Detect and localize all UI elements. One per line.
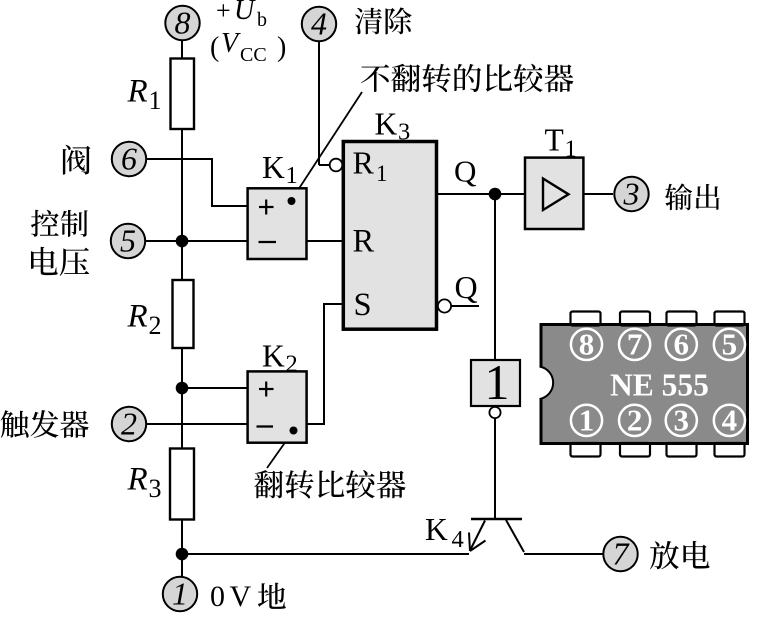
svg-text:S: S [354,287,372,323]
svg-text:5: 5 [120,223,136,259]
svg-text:): ) [277,32,286,63]
svg-text:1: 1 [149,86,162,115]
svg-text:T: T [545,123,564,158]
svg-text:K: K [262,150,285,185]
svg-text:6: 6 [674,327,690,362]
svg-text:1: 1 [565,136,577,163]
svg-text:0: 0 [210,580,225,613]
svg-text:7: 7 [627,327,643,362]
svg-text:2: 2 [149,311,162,340]
svg-text:2: 2 [121,406,137,442]
svg-text:R: R [127,462,148,498]
svg-text:4: 4 [311,6,327,42]
svg-text:2: 2 [627,403,643,438]
svg-text:1: 1 [286,162,298,189]
svg-text:2: 2 [286,351,298,378]
svg-text:(: ( [210,32,219,63]
svg-text:5: 5 [722,327,738,362]
svg-text:V: V [230,580,252,613]
svg-text:R: R [353,223,375,259]
svg-text:1: 1 [376,161,388,186]
svg-text:3: 3 [149,474,162,503]
svg-text:b: b [257,9,267,31]
svg-text:R: R [127,299,148,335]
svg-text:4: 4 [722,403,738,438]
svg-text:3: 3 [674,403,690,438]
svg-text:V: V [221,28,241,59]
svg-text:8: 8 [175,5,191,41]
svg-text:Q: Q [454,154,476,189]
svg-text:6: 6 [121,141,137,177]
svg-text:CC: CC [240,44,267,66]
svg-text:+: + [216,0,231,25]
svg-text:U: U [234,0,256,26]
svg-text:1: 1 [485,354,510,410]
svg-text:R: R [353,145,375,181]
svg-text:3: 3 [398,119,410,146]
svg-text:R: R [127,74,148,110]
svg-text:8: 8 [579,327,595,362]
svg-text:Q: Q [455,269,478,305]
svg-text:3: 3 [623,176,640,212]
svg-text:NE 555: NE 555 [610,367,709,402]
svg-text:K: K [262,339,285,374]
svg-text:4: 4 [452,526,464,553]
svg-text:1: 1 [172,576,188,612]
svg-text:7: 7 [613,536,631,572]
svg-text:K: K [375,107,398,142]
svg-text:K: K [425,512,448,547]
svg-text:1: 1 [579,403,595,438]
